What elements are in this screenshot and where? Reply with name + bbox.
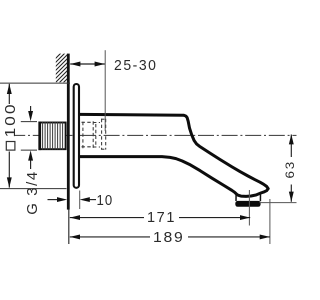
dimension square-100 (left vertical) — [8, 84, 10, 188]
centerline (horizontal dash-dot axis) — [14, 134, 297, 136]
aerator cup left edge — [235, 194, 237, 201]
wall hatching — [50, 50, 96, 84]
svg-text:10: 10 — [97, 193, 114, 209]
svg-text:63: 63 — [283, 160, 297, 178]
dimension 189 — [70, 236, 270, 238]
dimension 63 (right vertical) — [290, 135, 292, 202]
wall face line — [67, 54, 70, 210]
svg-text:G 3/4: G 3/4 — [25, 170, 41, 215]
dimension 25-30 — [70, 63, 105, 65]
extension line: flange bottom (y=188.6) — [0, 188, 67, 190]
extension line: 25-30 right (x=105) — [104, 50, 106, 131]
escutcheon flange (square 100) — [74, 84, 79, 188]
threaded connector G3/4 — [39, 122, 65, 151]
svg-text:100: 100 — [3, 103, 19, 138]
dimension G 3/4 (thread) — [30, 106, 32, 169]
aerator cup right edge — [259, 193, 261, 201]
spout outline (stroke) — [79, 114, 268, 196]
aerator ring (black band) — [235, 201, 260, 207]
outlet centerline extension (vertical at aerator) — [248, 190, 250, 226]
svg-text:189: 189 — [153, 230, 185, 246]
extension line: flange top (y=83) — [0, 82, 70, 84]
extension line: thread bottom — [21, 149, 37, 151]
dimension 171 — [70, 217, 250, 219]
extension line: 63 bottom (y=202.6) — [260, 202, 297, 204]
extension line: wall line downwards (x=68.8) — [68, 210, 70, 245]
hidden internals (dashed) behind flange — [82, 119, 107, 150]
svg-text:25-30: 25-30 — [114, 58, 158, 74]
extension line: flange back for dim 10 (x=79.7) — [79, 191, 81, 210]
dimension 10 (flange projection) — [48, 199, 97, 201]
extension line: thread top — [21, 121, 37, 123]
svg-text:171: 171 — [147, 210, 176, 226]
extension line: 189 right (x=269.9) — [269, 199, 271, 244]
spout body (white fill silhouette) — [79, 114, 268, 196]
